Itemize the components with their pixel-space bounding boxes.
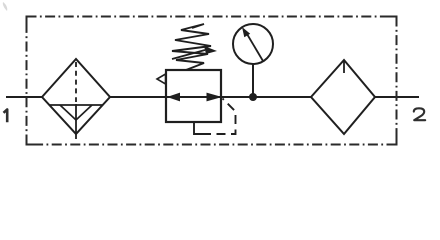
regulator spring (172, 24, 211, 70)
filter drain line (75, 104, 77, 139)
regulator relief vent triangle (157, 74, 166, 84)
port label 1 (4, 110, 8, 123)
regulator flow arrowhead right (207, 93, 223, 102)
lubricator drip line (343, 61, 345, 73)
enclosure dashed box (assembly boundary) (27, 17, 398, 146)
filter condensate dashed center line (75, 62, 77, 102)
wire: main flow line port 1 to port 2 (6, 96, 419, 98)
regulator R1: valve body (157, 24, 236, 134)
regulator flow path line (166, 96, 221, 98)
regulator pilot feedback dashed line (202, 99, 236, 135)
lubricator L1: diamond body (311, 60, 375, 134)
gauge dial circle (233, 24, 273, 64)
gauge stem wire (252, 64, 254, 97)
gauge needle (247, 34, 263, 61)
regulator flow arrowhead left (167, 93, 180, 102)
port label 2 (414, 108, 425, 120)
filter F1: diamond body (42, 59, 110, 139)
pressure gauge G1 (233, 24, 273, 101)
regulator adjustment arrow (172, 50, 205, 59)
filter inner drain V (60, 105, 92, 120)
regulator pilot line solid stub (194, 121, 202, 134)
junction node on main line (249, 93, 257, 101)
filter separator chord (49, 104, 103, 106)
scanner smudge top-left (3, 2, 7, 11)
